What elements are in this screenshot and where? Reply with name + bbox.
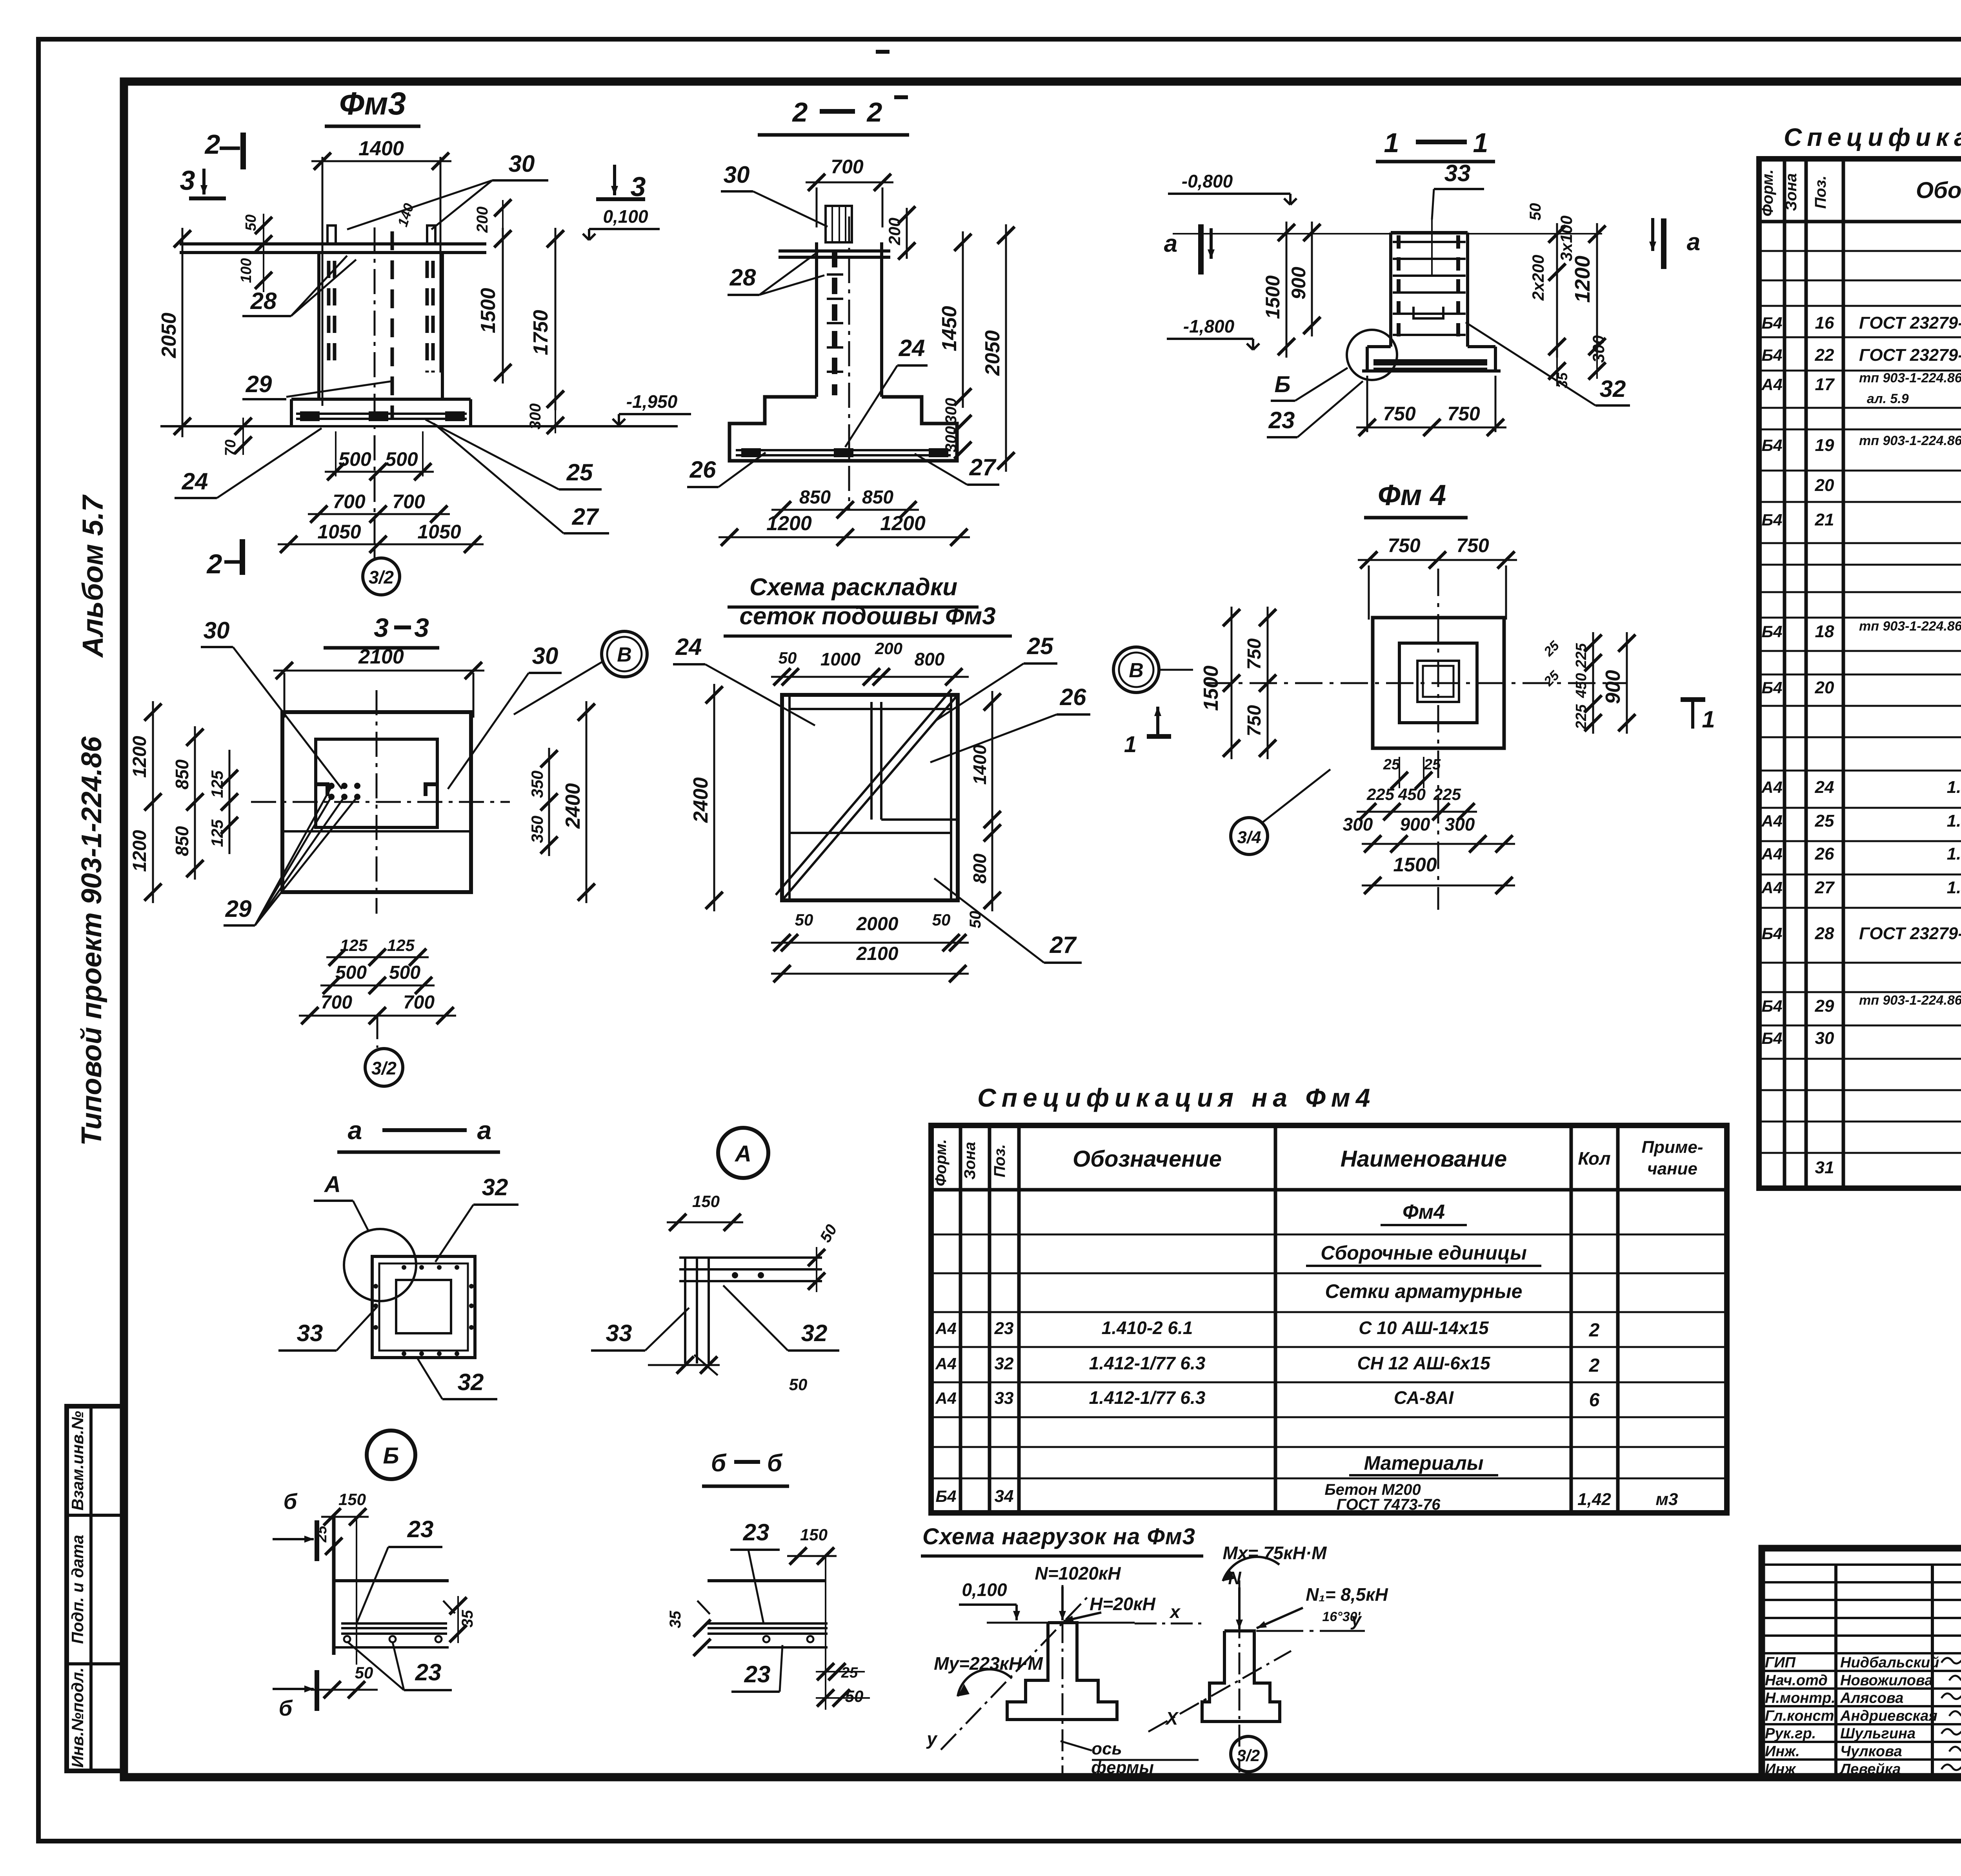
load level line left <box>987 1622 1135 1624</box>
svg-text:Рук.гр.: Рук.гр. <box>1765 1725 1816 1742</box>
svg-text:Фм4: Фм4 <box>1403 1201 1445 1223</box>
svg-text:сеток подошвы Фм3: сеток подошвы Фм3 <box>739 603 995 630</box>
title block left table verticals <box>1834 1565 1837 1777</box>
svg-text:1.410-2 6.1: 1.410-2 6.1 <box>1947 844 1961 863</box>
1-1 bottom dim 750 750 <box>1366 376 1368 432</box>
svg-text:100: 100 <box>238 258 255 283</box>
b-b bolts <box>763 1636 769 1642</box>
svg-text:25: 25 <box>1541 668 1563 689</box>
svg-text:Мx= 75кН·М: Мx= 75кН·М <box>1223 1543 1328 1563</box>
svg-text:700: 700 <box>333 491 366 513</box>
svg-text:1500: 1500 <box>1393 854 1437 876</box>
svg-text:225: 225 <box>1573 643 1590 668</box>
svg-text:25: 25 <box>1424 756 1441 773</box>
1-1 detail circle B <box>1347 330 1397 380</box>
svg-text:x: x <box>1169 1602 1181 1622</box>
svg-text:300: 300 <box>1589 335 1608 363</box>
svg-text:3/2: 3/2 <box>1237 1746 1260 1765</box>
svg-text:б: б <box>284 1489 298 1514</box>
svg-text:25: 25 <box>1027 633 1054 659</box>
svg-text:33: 33 <box>606 1320 632 1346</box>
svg-text:a: a <box>477 1116 492 1145</box>
svg-text:Обозначение: Обозначение <box>1073 1146 1222 1172</box>
svg-text:1.410-2 6.1: 1.410-2 6.1 <box>1947 878 1961 897</box>
svg-text:1500: 1500 <box>1262 275 1284 319</box>
svg-text:225: 225 <box>1366 785 1395 803</box>
1-1 datum line <box>1173 233 1602 234</box>
svg-text:750: 750 <box>1447 403 1480 425</box>
svg-text:25: 25 <box>313 1525 330 1543</box>
svg-text:20: 20 <box>1815 678 1834 697</box>
svg-text:30: 30 <box>532 643 558 669</box>
1-1 rebar v left <box>1397 235 1401 345</box>
svg-text:125: 125 <box>208 770 226 798</box>
load scheme left profile <box>1007 1623 1117 1720</box>
svg-text:25: 25 <box>1383 756 1400 773</box>
svg-text:1200: 1200 <box>129 830 150 872</box>
Fm3 footing outline <box>291 398 471 401</box>
svg-text:29: 29 <box>1815 996 1834 1016</box>
scheme inner v-lines 200 gap <box>870 702 873 820</box>
detail A circle <box>718 1128 768 1178</box>
svg-text:1.412-1/77 6.3: 1.412-1/77 6.3 <box>1089 1353 1206 1373</box>
load X axis diagonal <box>1148 1651 1291 1732</box>
svg-text:500: 500 <box>335 962 367 983</box>
svg-text:2000: 2000 <box>856 914 899 934</box>
svg-text:30: 30 <box>724 162 750 188</box>
Fm3 dims 700 700 <box>308 513 450 515</box>
svg-text:В: В <box>1129 659 1144 682</box>
Fm3 axis circle 3/2 <box>374 547 376 558</box>
1-1 column outline <box>1391 231 1468 234</box>
svg-text:34: 34 <box>995 1487 1014 1506</box>
svg-text:850: 850 <box>799 487 831 508</box>
2-2 rebar dashed <box>832 251 837 395</box>
2-2 bottom dims 850 850 <box>771 509 919 511</box>
svg-text:a: a <box>348 1116 362 1145</box>
svg-text:300: 300 <box>1445 814 1475 834</box>
svg-text:-1,950: -1,950 <box>626 391 678 412</box>
scheme inner v-line right <box>950 695 952 900</box>
3-3 corner angle left <box>316 784 327 796</box>
svg-text:1200: 1200 <box>766 512 812 535</box>
svg-text:2100: 2100 <box>358 645 404 668</box>
scheme outer square <box>782 695 958 900</box>
3-3 left dim 125 125 <box>229 750 231 854</box>
2-2 bottom dims 1200 1200 <box>719 536 970 538</box>
Fm4 left dim 1500 <box>1231 607 1233 759</box>
Fm3 rebar dashed right pair <box>426 261 429 373</box>
svg-text:H=20кН: H=20кН <box>1090 1594 1156 1614</box>
svg-text:Зона: Зона <box>1783 173 1800 211</box>
svg-text:Форм.: Форм. <box>1759 169 1776 216</box>
svg-text:30: 30 <box>204 617 230 644</box>
a-a nails <box>402 1265 406 1270</box>
svg-text:Б4: Б4 <box>1761 924 1782 943</box>
scheme diagonal 2 <box>776 689 951 895</box>
svg-text:ось: ось <box>1091 1739 1122 1758</box>
Fm4 section mark 1 right <box>1681 697 1705 702</box>
svg-text:1400: 1400 <box>970 744 990 785</box>
Fm4 anchor plate squares <box>1417 661 1459 702</box>
svg-text:1450: 1450 <box>938 306 961 351</box>
svg-text:300: 300 <box>942 398 960 424</box>
big spec table grid <box>1759 159 1961 1188</box>
svg-text:225: 225 <box>1573 704 1590 729</box>
svg-text:33: 33 <box>1444 160 1471 186</box>
3-3 rebar dots <box>328 783 335 789</box>
svg-text:А4: А4 <box>1761 845 1783 863</box>
svg-text:3: 3 <box>374 613 389 643</box>
3-3 bottom dim 500 500 <box>320 985 435 987</box>
Fm3 dims 500 500 <box>335 431 337 476</box>
svg-text:-0,800: -0,800 <box>1182 171 1233 191</box>
svg-text:Сборочные единицы: Сборочные единицы <box>1321 1242 1527 1264</box>
Fm4 centerline h <box>1204 682 1628 684</box>
Fm4 right dim 900 <box>1626 632 1628 734</box>
2-2 dim 1450 <box>962 231 964 408</box>
svg-text:19: 19 <box>1815 436 1834 455</box>
svg-text:a: a <box>1164 230 1177 257</box>
b-b beam top edge <box>708 1579 826 1582</box>
Fm3 dim 1500 right <box>502 228 504 384</box>
svg-text:900: 900 <box>1288 267 1310 300</box>
2-2 top plate <box>826 206 852 242</box>
svg-text:Б4: Б4 <box>1761 511 1782 529</box>
svg-text:18: 18 <box>1815 622 1834 641</box>
svg-text:26: 26 <box>1815 844 1834 863</box>
svg-text:2400: 2400 <box>689 777 712 823</box>
svg-text:30: 30 <box>509 151 535 177</box>
svg-text:23: 23 <box>1268 407 1295 433</box>
svg-text:Обозначение: Обозначение <box>1916 178 1961 203</box>
svg-text:-1,800: -1,800 <box>1183 316 1235 336</box>
svg-text:1500: 1500 <box>1200 665 1222 711</box>
svg-text:ГОСТ 23279-85: ГОСТ 23279-85 <box>1859 924 1961 943</box>
svg-text:200: 200 <box>474 207 491 233</box>
svg-text:20: 20 <box>1815 476 1834 495</box>
svg-text:800: 800 <box>970 853 990 883</box>
load y axis diagonal <box>941 1594 1091 1750</box>
svg-text:50: 50 <box>355 1663 373 1682</box>
svg-text:2050: 2050 <box>981 330 1004 376</box>
svg-text:С 10 АШ-14х15: С 10 АШ-14х15 <box>1359 1318 1489 1338</box>
Fm3 small dims 50 100 left <box>263 214 264 292</box>
svg-text:25: 25 <box>566 459 593 485</box>
svg-text:500: 500 <box>389 962 420 983</box>
svg-text:850: 850 <box>172 759 192 789</box>
svg-text:350: 350 <box>528 771 546 798</box>
svg-text:28: 28 <box>1815 924 1834 943</box>
detail B plate <box>341 1622 447 1625</box>
svg-text:50: 50 <box>243 215 259 231</box>
svg-text:Б4: Б4 <box>1761 346 1782 364</box>
svg-text:1200: 1200 <box>1571 256 1594 303</box>
svg-text:В: В <box>617 644 632 666</box>
scheme left dim 2400 <box>713 684 715 911</box>
fold mark 2 <box>894 95 908 99</box>
load scheme left centerline <box>1062 1585 1064 1774</box>
svg-text:28: 28 <box>729 264 756 291</box>
svg-text:Алясова: Алясова <box>1840 1690 1903 1707</box>
Fm3 top plate left <box>327 225 336 244</box>
svg-text:Андриевская: Андриевская <box>1840 1708 1937 1724</box>
svg-text:Взам.инв.№: Взам.инв.№ <box>68 1411 87 1511</box>
svg-text:м3: м3 <box>1655 1490 1678 1509</box>
svg-text:125: 125 <box>387 936 415 954</box>
detail B bolts <box>344 1636 350 1642</box>
Fm3 rebar dashed left pair <box>327 261 331 367</box>
svg-text:2: 2 <box>792 97 808 127</box>
svg-text:А4: А4 <box>1761 812 1783 830</box>
load axis circle 3/2 <box>1231 1736 1266 1772</box>
svg-text:140: 140 <box>394 201 417 229</box>
svg-text:33: 33 <box>995 1389 1014 1408</box>
svg-text:ГОСТ 23279-85: ГОСТ 23279-85 <box>1859 345 1961 365</box>
fold mark 1 <box>876 50 890 54</box>
svg-text:А4: А4 <box>935 1389 957 1407</box>
scheme right dim 800 <box>991 822 993 911</box>
a-a detail circle <box>344 1229 416 1301</box>
scheme inner v-line left <box>788 695 791 900</box>
svg-text:б: б <box>711 1450 727 1477</box>
a-a ring inner line <box>379 1263 468 1351</box>
svg-text:Н.монтр.: Н.монтр. <box>1765 1690 1835 1707</box>
svg-text:1400: 1400 <box>358 137 404 160</box>
scheme diagonal 1 <box>782 695 958 900</box>
2-2 footing mesh <box>736 449 951 451</box>
svg-text:900: 900 <box>1602 670 1624 704</box>
svg-text:тп 903-1-224.86: тп 903-1-224.86 <box>1859 993 1961 1008</box>
scheme right dim 1400 <box>991 691 993 831</box>
svg-text:Зона: Зона <box>961 1142 979 1180</box>
3-3 inner line <box>282 830 471 833</box>
svg-text:32: 32 <box>801 1320 828 1346</box>
svg-text:500: 500 <box>385 448 418 470</box>
svg-text:2: 2 <box>866 97 882 127</box>
2-2 slab lines <box>779 249 890 253</box>
svg-text:27: 27 <box>1815 878 1835 897</box>
svg-text:450: 450 <box>1573 673 1590 698</box>
svg-text:Б4: Б4 <box>1761 314 1782 332</box>
1-1 left dim 1500 <box>1286 222 1288 358</box>
svg-text:2: 2 <box>1589 1355 1600 1376</box>
Fm3 dim 1750 right <box>555 228 557 410</box>
Fm3 slab lines <box>180 242 486 245</box>
svg-text:Б4: Б4 <box>1761 678 1782 697</box>
svg-text:1.410-2 6.1: 1.410-2 6.1 <box>1102 1318 1193 1338</box>
load scheme right centerline <box>1239 1580 1241 1772</box>
svg-text:Б: Б <box>1274 372 1290 397</box>
svg-text:1: 1 <box>1473 127 1488 158</box>
svg-text:1: 1 <box>1384 127 1399 158</box>
svg-text:32: 32 <box>458 1369 484 1395</box>
svg-text:50: 50 <box>789 1375 808 1394</box>
b-b bottom edge <box>708 1646 828 1649</box>
svg-text:2100: 2100 <box>856 943 899 964</box>
2-2 footing outline <box>729 397 957 461</box>
svg-text:ал. 5.9: ал. 5.9 <box>1867 391 1909 406</box>
Fm3 footing mesh lines <box>296 413 467 415</box>
svg-text:А: А <box>324 1172 341 1197</box>
Fm4 axis circle 3/4 <box>1231 818 1268 854</box>
svg-text:ГИП: ГИП <box>1765 1654 1796 1671</box>
detail A top plate <box>679 1256 822 1259</box>
svg-text:30: 30 <box>1815 1029 1834 1048</box>
1-1 column center leader <box>1431 220 1433 274</box>
b-b right vertical <box>825 1556 826 1710</box>
svg-text:450: 450 <box>1398 785 1426 803</box>
svg-text:800: 800 <box>915 649 945 669</box>
svg-text:350: 350 <box>528 816 546 843</box>
svg-text:Инж: Инж <box>1765 1761 1796 1778</box>
2-2 dim 2050 <box>1005 224 1007 472</box>
svg-text:тп 903-1-224.86: тп 903-1-224.86 <box>1859 619 1961 634</box>
svg-text:2050: 2050 <box>158 313 180 358</box>
scheme inner h-line mid <box>789 832 951 834</box>
svg-text:Гл.конст.: Гл.конст. <box>1765 1708 1838 1724</box>
svg-text:27: 27 <box>1050 932 1077 958</box>
svg-text:32: 32 <box>482 1174 508 1200</box>
svg-text:Материалы: Материалы <box>1364 1452 1484 1474</box>
svg-text:0,100: 0,100 <box>603 206 648 227</box>
3-3 centerline v <box>376 690 378 914</box>
svg-text:чание: чание <box>1647 1159 1697 1178</box>
svg-text:300: 300 <box>527 404 544 430</box>
svg-text:3/2: 3/2 <box>371 1058 397 1078</box>
Fm3 dim 1400 <box>322 157 324 406</box>
svg-text:3x100: 3x100 <box>1557 216 1575 262</box>
svg-text:1000: 1000 <box>820 649 861 669</box>
detail A break mark <box>694 1355 718 1375</box>
svg-text:Б4: Б4 <box>1761 1029 1782 1047</box>
1-1 left dim 900 <box>1311 222 1313 336</box>
svg-text:24: 24 <box>675 634 702 660</box>
svg-text:N=1020кН: N=1020кН <box>1035 1563 1121 1583</box>
2-2 column outline <box>815 242 818 397</box>
svg-text:1.412-1/77 6.3: 1.412-1/77 6.3 <box>1089 1387 1206 1408</box>
3-3 right dim 350 350 <box>548 748 550 856</box>
svg-text:150: 150 <box>692 1192 720 1211</box>
svg-text:50: 50 <box>795 911 813 929</box>
svg-text:y: y <box>926 1729 938 1749</box>
svg-text:Схема раскладки: Схема раскладки <box>749 574 957 601</box>
Fm4 left dims 750 750 <box>1267 607 1269 759</box>
svg-text:32: 32 <box>1600 376 1626 402</box>
svg-text:1: 1 <box>1702 706 1715 733</box>
axis circle V right <box>1113 647 1159 693</box>
svg-text:А4: А4 <box>1761 878 1783 897</box>
svg-text:А4: А4 <box>935 1354 957 1373</box>
svg-text:тп 903-1-224.86: тп 903-1-224.86 <box>1859 433 1961 448</box>
svg-text:Инж.: Инж. <box>1765 1743 1800 1760</box>
svg-text:Б4: Б4 <box>1761 622 1782 641</box>
svg-text:27: 27 <box>969 454 997 480</box>
svg-text:750: 750 <box>1383 403 1416 425</box>
svg-text:Шульгина: Шульгина <box>1840 1725 1916 1742</box>
svg-text:Подп. и дата: Подп. и дата <box>68 1535 87 1644</box>
svg-text:29: 29 <box>246 371 272 397</box>
svg-text:1050: 1050 <box>317 521 361 543</box>
svg-text:N₁= 8,5кН: N₁= 8,5кН <box>1306 1584 1388 1605</box>
a-a outer square <box>372 1256 475 1358</box>
svg-text:35: 35 <box>667 1611 684 1628</box>
svg-text:Фм3: Фм3 <box>339 86 406 122</box>
svg-text:2x200: 2x200 <box>1529 255 1547 301</box>
svg-text:б: б <box>767 1450 783 1477</box>
Fm4 outer square <box>1373 618 1504 748</box>
a-a inner square <box>396 1280 451 1333</box>
Fm3 ground line <box>160 425 678 427</box>
svg-text:СА-8АI: СА-8АI <box>1394 1387 1454 1408</box>
svg-text:28: 28 <box>250 288 277 314</box>
Fm3 dim 2050 left <box>182 228 184 437</box>
1-1 hook <box>1413 307 1443 318</box>
svg-text:24: 24 <box>182 468 208 494</box>
3-3 outer square <box>282 712 471 892</box>
svg-text:6: 6 <box>1589 1390 1600 1411</box>
3-3 left dim 1200 1200 <box>152 701 154 903</box>
svg-text:900: 900 <box>1400 814 1430 834</box>
1-1 stirrups <box>1393 241 1466 243</box>
left stamp boxes <box>67 1406 124 1771</box>
svg-text:Альбом 5.7: Альбом 5.7 <box>76 494 109 658</box>
svg-text:Форм.: Форм. <box>932 1139 950 1186</box>
svg-text:33: 33 <box>297 1320 323 1346</box>
svg-text:50: 50 <box>967 911 984 929</box>
svg-text:Новожилова: Новожилова <box>1840 1672 1933 1689</box>
svg-text:3/2: 3/2 <box>369 567 394 587</box>
svg-text:27: 27 <box>572 504 599 530</box>
svg-text:29: 29 <box>225 896 252 922</box>
svg-text:125: 125 <box>208 819 226 847</box>
svg-text:700: 700 <box>392 491 425 513</box>
svg-text:3: 3 <box>180 165 195 196</box>
svg-text:Кол: Кол <box>1578 1148 1610 1169</box>
3-3 axis circle 3/2 <box>377 1016 378 1048</box>
svg-text:Схема нагрузок на Фм3: Схема нагрузок на Фм3 <box>922 1524 1195 1549</box>
3-3 bottom dim 125 125 <box>326 956 429 958</box>
Fm4 inner square <box>1399 643 1477 723</box>
detail B bottom edge <box>334 1646 449 1649</box>
svg-text:3/4: 3/4 <box>1237 828 1261 847</box>
svg-text:2: 2 <box>206 549 222 579</box>
svg-text:Нач.отд: Нач.отд <box>1765 1672 1828 1689</box>
3-3 inner rect <box>316 739 437 827</box>
svg-text:23: 23 <box>743 1519 769 1545</box>
svg-text:X: X <box>1165 1708 1179 1729</box>
svg-text:50: 50 <box>1527 203 1544 221</box>
svg-text:300: 300 <box>1343 814 1373 834</box>
detail A left plate <box>684 1258 686 1363</box>
svg-text:Левейка: Левейка <box>1839 1761 1901 1778</box>
svg-text:125: 125 <box>340 936 368 954</box>
svg-text:850: 850 <box>172 826 192 856</box>
Fm4 right dims 225 450 225 <box>1592 632 1594 734</box>
svg-text:700: 700 <box>321 992 352 1013</box>
load scheme right profile <box>1202 1631 1280 1721</box>
Fm4 spec table grid <box>931 1125 1727 1513</box>
svg-text:Нидбальский: Нидбальский <box>1840 1654 1939 1671</box>
svg-text:850: 850 <box>862 487 893 508</box>
svg-text:225: 225 <box>1433 785 1461 803</box>
svg-text:Мy=223кН·М: Мy=223кН·М <box>934 1653 1043 1674</box>
title block left table rows <box>1762 1563 1961 1566</box>
load y axis right <box>1256 1630 1365 1632</box>
svg-text:у: у <box>1350 1609 1362 1630</box>
svg-text:2400: 2400 <box>562 783 584 829</box>
svg-text:50: 50 <box>932 911 951 929</box>
